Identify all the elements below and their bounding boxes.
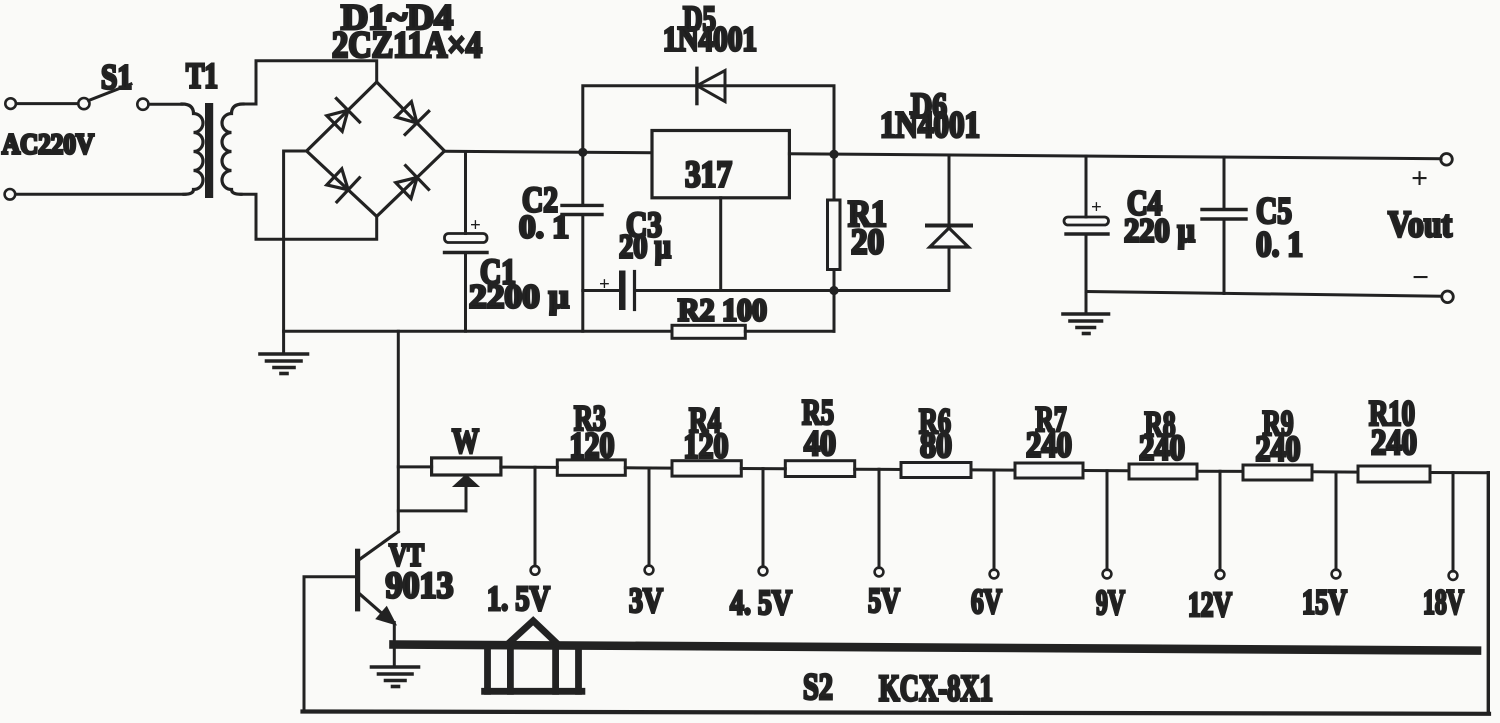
tap 4.5V xyxy=(759,469,768,576)
svg-text:9V: 9V xyxy=(1096,583,1125,622)
svg-text:2CZ11A×4: 2CZ11A×4 xyxy=(332,25,482,66)
S2 selector common bar xyxy=(394,645,1478,651)
svg-text:T1: T1 xyxy=(186,56,218,96)
node dot input rail xyxy=(578,148,587,157)
wire AC bottom terminal to transformer primary xyxy=(16,193,186,196)
AC input terminal top xyxy=(5,98,16,109)
output terminal plus xyxy=(1441,154,1453,166)
svg-text:18V: 18V xyxy=(1423,583,1464,622)
wire bridge left vertex to ground xyxy=(284,151,307,354)
resistor R4 xyxy=(672,461,741,476)
svg-text:15V: 15V xyxy=(1302,583,1347,622)
diode D6 xyxy=(834,155,971,291)
wire secondary top to bridge top (step) xyxy=(241,61,377,104)
svg-text:220 µ: 220 µ xyxy=(1124,213,1195,250)
resistor R7 xyxy=(1015,463,1083,478)
ground below C4 xyxy=(1063,314,1109,334)
bridge diode top-right xyxy=(396,102,429,135)
S2 box right edge xyxy=(1487,473,1490,714)
tap 15V xyxy=(1332,472,1341,578)
svg-text:1N4001: 1N4001 xyxy=(663,20,757,59)
wire AC top terminal to S1 xyxy=(16,102,78,105)
tap 12V xyxy=(1216,471,1225,579)
AC input terminal bottom xyxy=(5,189,16,200)
capacitor C3 xyxy=(583,271,834,311)
svg-text:W: W xyxy=(452,422,479,461)
node dot ADJ xyxy=(829,286,838,295)
svg-text:+: + xyxy=(470,215,481,236)
diode D5 loop wire xyxy=(583,86,834,155)
svg-text:240: 240 xyxy=(1139,428,1185,468)
svg-text:0. 1: 0. 1 xyxy=(1256,224,1303,264)
resistor R3 xyxy=(557,460,625,475)
resistor R5 xyxy=(785,461,854,477)
svg-text:240: 240 xyxy=(1371,422,1417,462)
tap 6V xyxy=(990,470,999,578)
wire ADJ to ground rail via R2 xyxy=(833,291,836,332)
svg-text:+: + xyxy=(599,274,610,295)
output terminal minus xyxy=(1442,291,1454,303)
svg-text:+: + xyxy=(1411,162,1428,195)
svg-text:20 µ: 20 µ xyxy=(619,229,671,266)
svg-text:Vout: Vout xyxy=(1388,205,1453,246)
svg-text:80: 80 xyxy=(920,425,952,465)
svg-text:12V: 12V xyxy=(1188,585,1232,624)
wire main positive rail left of 317 xyxy=(445,151,653,153)
svg-text:1N4001: 1N4001 xyxy=(880,105,980,146)
resistor R9 xyxy=(1243,465,1312,480)
svg-text:1. 5V: 1. 5V xyxy=(487,579,550,618)
switch S1 xyxy=(78,84,148,110)
svg-text:S1: S1 xyxy=(101,58,132,97)
capacitor C4 xyxy=(1064,156,1109,313)
S2 selector contact symbol xyxy=(485,621,582,692)
tap 5V xyxy=(875,469,884,576)
svg-text:R2 100: R2 100 xyxy=(678,292,767,328)
wire secondary bottom to bridge bottom (step) xyxy=(241,194,377,239)
potentiometer W xyxy=(398,458,501,511)
wire S2 box left edge to VT base xyxy=(304,577,355,712)
tap 1.5V xyxy=(531,467,540,574)
svg-text:KCX-8X1: KCX-8X1 xyxy=(879,669,993,710)
svg-text:9013: 9013 xyxy=(386,566,454,607)
resistor R10 xyxy=(1358,466,1430,482)
svg-text:5V: 5V xyxy=(868,581,900,620)
tap 18V xyxy=(1449,473,1458,580)
wire ground rail bottom xyxy=(284,330,834,333)
svg-text:20: 20 xyxy=(851,222,884,262)
bridge diode bottom-right xyxy=(396,166,429,199)
S2 box bottom edge xyxy=(303,712,1490,714)
svg-text:240: 240 xyxy=(1026,425,1072,465)
ground below bridge xyxy=(260,354,308,374)
bridge diode top-left xyxy=(327,99,360,132)
wire output negative rail xyxy=(1086,292,1442,297)
ground below VT xyxy=(372,667,419,687)
svg-text:40: 40 xyxy=(804,423,836,463)
capacitor C2 xyxy=(562,152,602,331)
capacitor C5 xyxy=(1202,157,1246,293)
diode D5 xyxy=(697,68,725,103)
svg-text:240: 240 xyxy=(1256,429,1301,469)
svg-text:317: 317 xyxy=(685,155,732,196)
svg-text:6V: 6V xyxy=(971,582,1002,621)
svg-text:S2: S2 xyxy=(803,667,833,708)
svg-text:2200 µ: 2200 µ xyxy=(469,279,569,316)
resistor R8 xyxy=(1129,464,1197,479)
svg-text:3V: 3V xyxy=(629,581,663,620)
tap 9V xyxy=(1103,471,1112,579)
317 ADJ pin wire xyxy=(719,198,722,291)
svg-text:120: 120 xyxy=(684,426,729,466)
wire ground rail down to pot section xyxy=(397,331,400,531)
bridge diode bottom-left xyxy=(327,169,360,202)
wire S1 to transformer primary xyxy=(149,103,182,106)
transformer T1 primary winding xyxy=(182,104,203,194)
node dot 317 output xyxy=(829,150,838,159)
wire resistor chain xyxy=(501,467,1488,473)
svg-text:0. 1: 0. 1 xyxy=(519,210,569,246)
svg-text:4. 5V: 4. 5V xyxy=(730,583,792,622)
regulator U1 317 box xyxy=(652,131,789,198)
wire to W left terminal xyxy=(398,465,431,468)
resistor R6 xyxy=(901,463,971,478)
tap 3V xyxy=(645,468,654,574)
transformer T1 secondary winding xyxy=(222,104,243,194)
svg-text:−: − xyxy=(1412,261,1429,294)
wire main positive rail right of 317 xyxy=(789,154,1441,159)
transistor VT 9013 xyxy=(355,532,398,667)
capacitor C1 xyxy=(445,152,488,332)
svg-text:120: 120 xyxy=(570,425,615,465)
bridge rectifier diamond D1~D4 xyxy=(307,82,445,216)
transformer T1 core xyxy=(205,103,213,198)
resistor R2 xyxy=(672,325,745,338)
svg-text:+: + xyxy=(1091,197,1102,218)
resistor R1 xyxy=(828,154,841,290)
svg-text:AC220V: AC220V xyxy=(2,130,94,161)
